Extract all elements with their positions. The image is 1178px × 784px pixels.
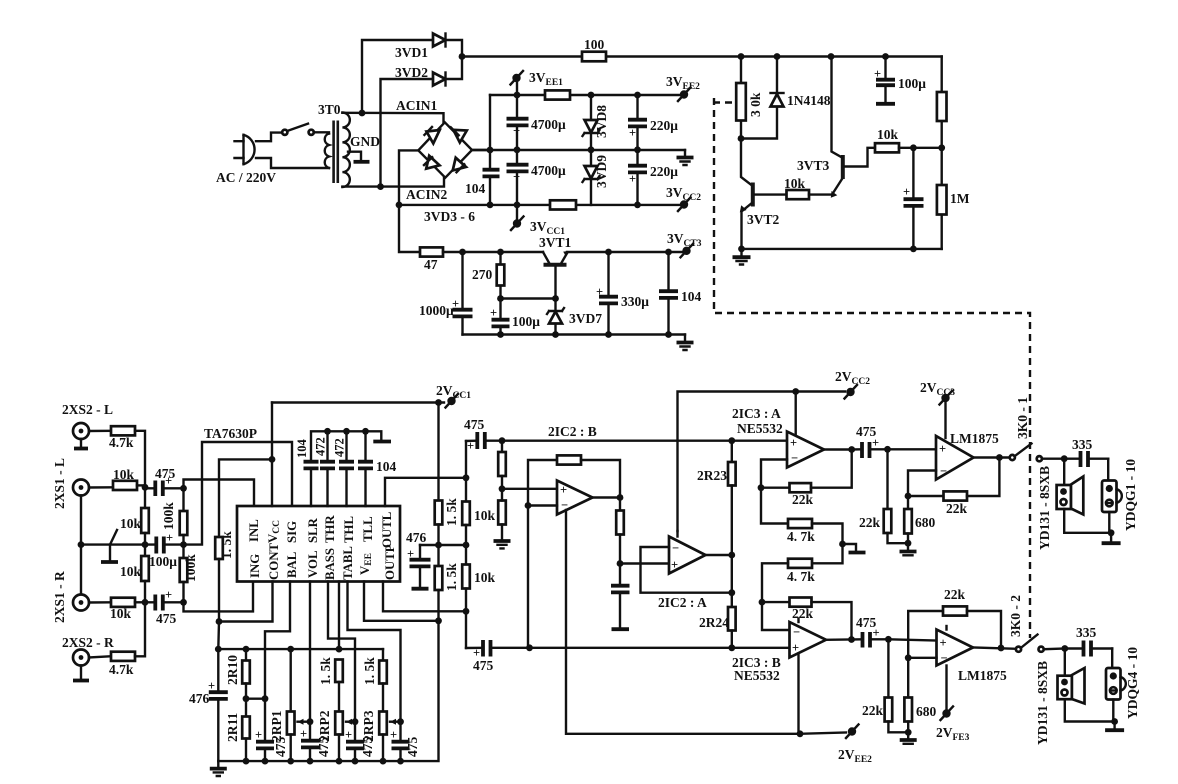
svg-text:335: 335: [1072, 437, 1093, 452]
node 2R24 top: [728, 589, 735, 596]
zener 3VD8: [583, 95, 610, 150]
svg-text:AC / 220V: AC / 220V: [216, 170, 276, 185]
svg-text:TLL: TLL: [361, 516, 375, 542]
svg-text:104: 104: [465, 181, 486, 196]
node vee2 join: [797, 730, 804, 737]
capacitor 100u right: [874, 57, 926, 104]
dashed link left: [713, 101, 734, 103]
wire ACIN2 secondary bottom to bridge: [342, 178, 447, 202]
wire plus input: [502, 488, 557, 490]
svg-text:475: 475: [405, 737, 420, 758]
svg-text:+: +: [596, 285, 603, 299]
node lm2 fb: [905, 654, 912, 661]
wire lm2 vminus: [945, 666, 947, 710]
resistor 2R23: [697, 441, 736, 555]
ground lm2: [900, 732, 917, 744]
node speaker2 tap: [1061, 645, 1068, 652]
svg-text:335: 335: [1076, 625, 1097, 640]
svg-text:+: +: [300, 727, 307, 741]
svg-text:THR: THR: [323, 515, 337, 543]
jack YDQG4-10: [1106, 647, 1140, 722]
svg-text:OUTP: OUTP: [383, 544, 397, 580]
node reg bottom: [497, 331, 559, 338]
capacitor 476 pots: [189, 649, 228, 761]
wire sleeve to mid node: [81, 543, 145, 545]
wire 2VCC1 feed: [272, 401, 444, 403]
svg-text:2R24: 2R24: [699, 615, 729, 630]
node RP2 wiper: [352, 718, 359, 725]
capacitor 220u lower: [628, 150, 678, 209]
wire 47 row rail: [443, 251, 686, 253]
node 270 top: [497, 249, 504, 256]
node gnd out2: [1111, 718, 1118, 725]
node diode junction: [459, 53, 466, 60]
svg-text:−: −: [940, 464, 947, 478]
node 2VCC1 column: [435, 399, 442, 406]
node stageB in: [499, 437, 506, 444]
svg-text:100: 100: [584, 37, 605, 52]
svg-text:2XS2 - L: 2XS2 - L: [62, 402, 113, 417]
jack 2XS1-L: [52, 458, 89, 509]
svg-text:+: +: [165, 474, 172, 488]
svg-text:−: −: [941, 651, 948, 665]
node gnd out1: [1108, 529, 1115, 536]
wire ic3a minus: [761, 460, 787, 488]
feedback resistor 22k ic3a: [761, 450, 852, 508]
wire 3VT3 base: [845, 148, 875, 167]
node speaker1 tap: [1061, 455, 1068, 462]
ground input tick: [101, 530, 118, 562]
svg-text:+: +: [939, 442, 946, 456]
svg-text:475: 475: [464, 417, 485, 432]
wire plug to primary bottom: [256, 158, 329, 168]
dashed boundary: [714, 98, 1030, 638]
resistor 10k bus2: [120, 545, 149, 603]
resistor 47: [420, 247, 443, 272]
node OUTL tap: [463, 474, 470, 481]
svg-text:220μ: 220μ: [650, 118, 678, 133]
wire ic3b minus: [762, 602, 790, 630]
wire 4.7k lower to bus: [135, 602, 145, 656]
capacitor 475 outL: [464, 417, 502, 453]
terminal 2VCC3: [920, 380, 955, 438]
wire filter to 2ica plus: [620, 562, 669, 564]
wire INL to pin: [184, 480, 255, 507]
svg-text:+: +: [390, 728, 397, 742]
node bus mid: [142, 541, 149, 548]
transistor 3VT1: [539, 235, 572, 299]
svg-text:104: 104: [295, 439, 309, 459]
svg-text:+: +: [560, 483, 567, 497]
svg-text:3T0: 3T0: [318, 102, 341, 117]
svg-text:+: +: [790, 436, 797, 450]
capacitor filter: [611, 564, 630, 630]
capacitor 104 byp1: [295, 439, 319, 507]
svg-text:4. 7k: 4. 7k: [787, 529, 815, 544]
wire VCC pin up: [271, 403, 273, 507]
svg-text:22k: 22k: [862, 703, 884, 718]
svg-text:+: +: [629, 126, 636, 140]
feedback resistor 2icb: [528, 455, 620, 505]
node ACIN1: [359, 110, 366, 117]
svg-text:220μ: 220μ: [650, 164, 678, 179]
wire VEE pin: [364, 582, 439, 621]
svg-text:CONT: CONT: [267, 543, 281, 580]
capacitor 104 reg: [659, 249, 702, 338]
svg-text:10k: 10k: [877, 127, 899, 142]
svg-text:3K0 - 2: 3K0 - 2: [1008, 595, 1023, 637]
svg-text:+: +: [903, 185, 910, 199]
ground pot rail: [210, 761, 227, 776]
capacitor 104 bridge: [465, 95, 500, 205]
switch 3K0-2: [1008, 595, 1044, 652]
svg-text:+: +: [467, 439, 474, 453]
svg-text:2RP2: 2RP2: [317, 710, 332, 742]
node bus R: [142, 599, 149, 606]
svg-text:10k: 10k: [120, 564, 142, 579]
capacitor 4700u lower: [507, 150, 567, 205]
wire ic3a out: [824, 448, 852, 450]
svg-text:270: 270: [472, 267, 493, 282]
resistor 22k lm1 shunt: [859, 449, 908, 543]
node fb a: [758, 484, 765, 491]
node gnd lm2: [905, 729, 912, 736]
resistor 10k vt3: [875, 127, 899, 152]
wire signal mid run: [530, 647, 732, 649]
svg-text:100μ: 100μ: [898, 76, 926, 91]
node lm1 out: [996, 454, 1003, 461]
wire plug to switch: [256, 133, 282, 142]
switch 3K0-1: [1010, 397, 1042, 462]
node fb b: [759, 599, 766, 606]
svg-text:BASS: BASS: [323, 548, 337, 580]
capacitor 475 vol: [300, 722, 331, 761]
node 3VT2 collector: [738, 135, 745, 142]
svg-text:22k: 22k: [946, 501, 968, 516]
jack 2XS2-R: [62, 635, 114, 681]
wire ic3b out: [826, 638, 852, 641]
svg-text:680: 680: [916, 704, 937, 719]
node 2ica out: [728, 552, 735, 559]
wire lower rail down to 47 row: [399, 205, 420, 252]
resistor 2R24: [699, 555, 736, 648]
feedback resistor 22k lm2: [908, 587, 1001, 658]
svg-text:476: 476: [189, 691, 210, 706]
capacitor 104 byp4: [358, 428, 397, 506]
wire mid to SIG: [184, 442, 293, 545]
svg-text:10k: 10k: [113, 467, 135, 482]
wire lm2 plus input: [888, 639, 936, 640]
svg-text:TABL: TABL: [341, 546, 355, 580]
svg-text:BAL: BAL: [285, 552, 299, 578]
diode 3VD1: [395, 34, 446, 61]
pot rail lower: [218, 621, 438, 761]
speaker YD131-8SXB ch2: [1035, 649, 1115, 746]
svg-text:3VD7: 3VD7: [569, 311, 602, 326]
node signal to IC3B: [728, 644, 735, 651]
node ING: [180, 599, 187, 606]
svg-text:4700μ: 4700μ: [531, 117, 566, 132]
resistor 1M: [937, 148, 970, 249]
wire BAL pin: [265, 582, 290, 699]
capacitor 475 inR: [145, 588, 184, 626]
wire base line: [501, 297, 556, 299]
node right column mid: [938, 144, 945, 151]
jack 2XS1-R: [52, 571, 89, 623]
wire BASS pin: [328, 582, 355, 722]
node INL: [180, 485, 187, 492]
wire 476 to cols: [420, 544, 466, 546]
wire ING node to pin: [184, 582, 254, 612]
svg-text:3VD1: 3VD1: [395, 45, 428, 60]
resistor 1.5k vcc: [215, 531, 234, 622]
resistor 680 lm1: [904, 496, 935, 543]
wire 10k to right column: [899, 147, 942, 149]
node 2R23 top: [728, 437, 735, 444]
op-amp 2IC3:A NE5532: [732, 406, 824, 468]
wire base to 3VT3 emitter: [809, 193, 832, 195]
svg-text:10k: 10k: [110, 606, 132, 621]
node VCC tap: [269, 456, 276, 463]
capacitor 475 outP: [466, 640, 530, 673]
op-amp 2IC3:B NE5532: [732, 619, 826, 684]
svg-text:LM1875: LM1875: [958, 668, 1007, 683]
resistor 100: [582, 37, 606, 61]
svg-text:−: −: [672, 541, 679, 555]
wire pin to RP3 wiper: [348, 582, 401, 722]
wire 3VD2 cathode to node: [446, 57, 463, 80]
svg-text:22k: 22k: [792, 606, 814, 621]
series resistor 2icb out: [616, 498, 624, 564]
resistor 10k divider: [498, 489, 506, 540]
wire switch1 to load: [1042, 458, 1064, 460]
svg-text:2IC2 : B: 2IC2 : B: [548, 424, 597, 439]
potentiometer 2RP3: [361, 710, 401, 761]
zener 3VD9: [583, 150, 610, 205]
svg-text:4700μ: 4700μ: [531, 163, 566, 178]
node sleeve mid: [78, 541, 85, 548]
capacitor 475 bass: [345, 722, 375, 761]
svg-text:1M: 1M: [950, 191, 970, 206]
ground 4.7k pair: [843, 544, 866, 553]
svg-text:2XS2 - R: 2XS2 - R: [62, 635, 114, 650]
bridge rectifier 3VD3-6: [418, 122, 475, 224]
wire upper rail: [490, 94, 681, 96]
svg-text:472: 472: [333, 438, 347, 457]
wire 2ica minus: [641, 547, 732, 593]
node lm2 out: [998, 645, 1005, 652]
feedback resistor 22k lm1: [908, 458, 999, 517]
svg-text:1. 5k: 1. 5k: [318, 657, 333, 685]
ground 3VT2 emitter: [733, 249, 751, 265]
terminal 3VEE2: [666, 74, 700, 101]
wire bridge right corner: [472, 149, 490, 151]
svg-text:−: −: [791, 451, 798, 465]
node CONT junction: [216, 618, 223, 625]
node bridge plus: [487, 147, 494, 154]
svg-text:2RP1: 2RP1: [269, 710, 284, 742]
wire to IC3B plus: [732, 647, 790, 649]
capacitor 475 bal: [255, 699, 288, 761]
svg-text:YD131 - 8SXB: YD131 - 8SXB: [1037, 466, 1052, 550]
svg-text:GND: GND: [350, 134, 380, 149]
jack 2XS2-L: [62, 402, 113, 449]
svg-text:475: 475: [156, 611, 177, 626]
node 4.7k gnd: [839, 541, 846, 548]
node gnd lm1: [905, 540, 912, 547]
svg-text:1. 5k: 1. 5k: [362, 657, 377, 685]
node lower rail left: [396, 202, 403, 209]
feedback resistor 22k ic3b: [762, 598, 852, 640]
wire switch to primary top: [314, 132, 329, 133]
svg-text:ACIN1: ACIN1: [396, 98, 438, 113]
resistor 1.5k bass: [318, 657, 343, 712]
node RP3 wiper: [397, 718, 404, 725]
capacitor 220u upper: [628, 92, 678, 154]
resistor 10k inL: [89, 467, 145, 490]
divider resistor upper: [498, 441, 506, 489]
node cap tap: [910, 144, 917, 151]
wire lm2 minus: [908, 657, 936, 659]
svg-text:3K0 - 1: 3K0 - 1: [1015, 397, 1030, 439]
wire 3VT2 base: [755, 193, 787, 195]
node minus to signal: [526, 644, 533, 651]
jack YDQG1-10: [1102, 459, 1138, 533]
svg-text:ING: ING: [248, 554, 262, 578]
ground 10k divider: [494, 541, 511, 548]
node lm2 in: [885, 636, 892, 643]
svg-text:2XS1 - L: 2XS1 - L: [52, 458, 67, 509]
wire lm1 plus input: [888, 448, 937, 450]
svg-text:2RP3: 2RP3: [361, 710, 376, 742]
node mid rail c1: [514, 146, 521, 153]
resistor 1.5k treble: [362, 649, 387, 711]
terminal 3VCT3: [667, 231, 702, 257]
amplifier LM1875 ch1: [936, 431, 999, 480]
svg-text:3VD9: 3VD9: [594, 155, 609, 188]
wire divider to BAL col: [246, 698, 265, 700]
wire reg bottom rail: [463, 333, 686, 335]
wire to IC3A input: [732, 440, 787, 442]
terminal 2VFE3: [936, 707, 970, 744]
IC TA7630P: [204, 426, 400, 582]
capacitor 472 byp3: [333, 428, 355, 506]
wire opamp out: [593, 496, 621, 498]
node ic3b out: [848, 636, 855, 643]
svg-text:3VT1: 3VT1: [539, 235, 572, 250]
AC plug AC/220V: [216, 135, 276, 185]
wire lm1 out: [974, 456, 1011, 458]
svg-text:ACIN2: ACIN2: [406, 187, 448, 202]
node base junction: [497, 295, 504, 302]
svg-text:+: +: [940, 636, 947, 650]
svg-text:4.7k: 4.7k: [109, 662, 134, 677]
capacitor 475 inL: [145, 466, 184, 496]
svg-text:100k: 100k: [183, 554, 198, 582]
transistor 3VT2: [740, 139, 780, 249]
node reg2 bottom: [738, 246, 917, 253]
svg-text:+: +: [513, 170, 520, 184]
wire reg2 bottom rail: [742, 248, 942, 250]
svg-text:NE5532: NE5532: [737, 421, 783, 436]
resistor 100k 2: [180, 545, 198, 603]
capacitor 475 ch1: [852, 424, 888, 458]
svg-text:2R10: 2R10: [225, 655, 240, 685]
terminal 3VEE1: [511, 70, 564, 95]
node rail taps: [215, 646, 342, 653]
node top wire taps: [738, 53, 889, 60]
svg-text:+: +: [166, 531, 173, 545]
svg-text:475: 475: [473, 658, 494, 673]
svg-text:10k: 10k: [474, 508, 496, 523]
wire OUTL to coupling: [385, 478, 466, 506]
svg-text:10k: 10k: [474, 570, 496, 585]
node lm1 fb: [905, 493, 912, 500]
op-amp 2IC2:B: [548, 424, 597, 515]
resistor 10k vt2: [784, 176, 809, 199]
svg-text:1N4148: 1N4148: [787, 93, 831, 108]
svg-text:1. 5k: 1. 5k: [444, 563, 459, 591]
terminal 2VCC1: [436, 383, 471, 408]
wire 4.7k to bus: [135, 431, 145, 489]
svg-text:104: 104: [681, 289, 702, 304]
svg-text:LM1875: LM1875: [950, 431, 999, 446]
svg-text:+: +: [490, 306, 497, 320]
node opamp plus: [499, 485, 506, 492]
node BAL col: [262, 695, 269, 702]
capacitor 100u reg: [490, 299, 540, 335]
svg-text:100μ: 100μ: [149, 554, 177, 569]
wire VCC to 1.5k: [219, 459, 272, 537]
node sig mid: [180, 541, 187, 548]
capacitor 330u: [596, 249, 649, 338]
node bus L: [142, 484, 149, 491]
resistor 3.0k: [736, 57, 763, 139]
resistor 10k bus1: [120, 488, 149, 544]
wire switch2 to load: [1044, 647, 1065, 650]
svg-text:10k: 10k: [120, 516, 142, 531]
node supply mid: [435, 542, 442, 549]
resistor 270: [472, 252, 504, 299]
svg-text:+: +: [513, 124, 520, 138]
svg-text:3VD2: 3VD2: [395, 65, 428, 80]
svg-text:22k: 22k: [944, 587, 966, 602]
svg-text:+: +: [872, 436, 879, 450]
resistor 4.7k ic3b: [762, 544, 843, 602]
bypass rail above IC: [311, 431, 391, 461]
node 10k mid: [463, 542, 470, 549]
wire lm1 minus: [908, 471, 936, 497]
svg-text:1. 5k: 1. 5k: [219, 531, 234, 559]
node 2icb out: [617, 494, 624, 501]
wire VOL pin: [309, 582, 311, 722]
ground out1: [1102, 533, 1121, 543]
svg-text:+: +: [873, 626, 880, 640]
terminal 3VCC1: [511, 205, 565, 237]
capacitor vt3: [903, 148, 924, 249]
wire 2ica out: [706, 554, 732, 556]
node ACIN2: [377, 183, 384, 190]
wire minus col down: [527, 506, 529, 648]
svg-text:OUTL: OUTL: [380, 512, 394, 548]
wire 2icb vminus: [566, 510, 800, 734]
capacitor 100u input: [145, 531, 184, 569]
node lower rail taps: [243, 758, 404, 765]
resistor upper rail: [545, 90, 570, 99]
node ic3a vplus: [792, 388, 799, 395]
op-amp 2IC2:A: [658, 531, 707, 610]
svg-text:104: 104: [376, 459, 397, 474]
